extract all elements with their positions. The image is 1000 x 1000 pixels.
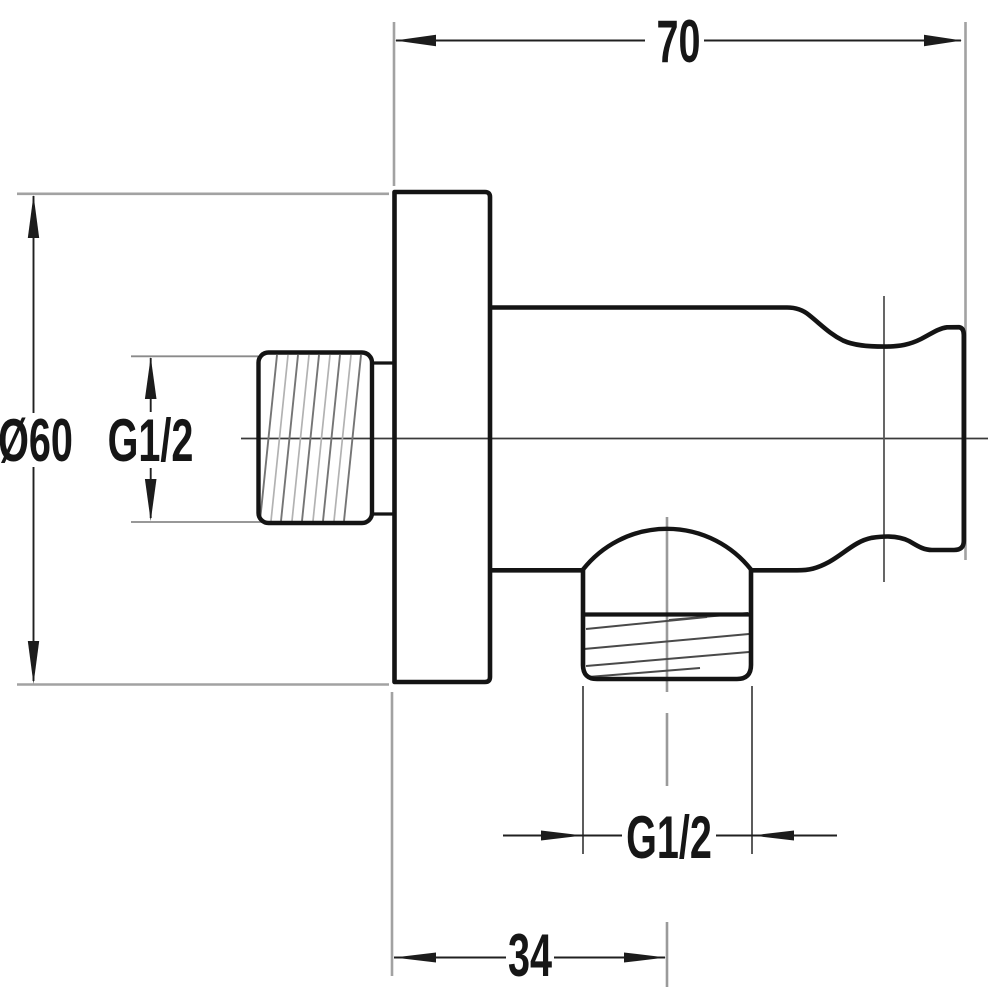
svg-text:70: 70 bbox=[656, 8, 700, 75]
svg-text:34: 34 bbox=[508, 922, 552, 989]
svg-text:G1/2: G1/2 bbox=[626, 804, 712, 871]
svg-text:G1/2: G1/2 bbox=[108, 407, 194, 474]
svg-text:Ø60: Ø60 bbox=[0, 407, 73, 474]
